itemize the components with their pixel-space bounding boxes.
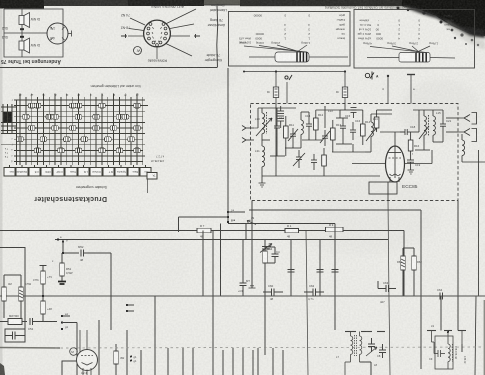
- wire: [324, 106, 326, 128]
- valve V2 bottom: [77, 330, 98, 375]
- node g2: [61, 328, 63, 330]
- trimmer arrow through L30: [256, 118, 272, 136]
- wire: vertical x320: [319, 240, 321, 297]
- wire: vertical x404: [403, 231, 405, 297]
- resistor R57 horizontal: [0, 319, 27, 325]
- wire: vertical x233: [232, 348, 234, 375]
- wire: vertical x307: [306, 231, 308, 375]
- wire: vertical x220: [220, 224, 222, 297]
- node: [57, 238, 59, 240]
- wire: cathode drop: [387, 182, 389, 201]
- circled W mark: [134, 47, 142, 55]
- leader line to left: [128, 35, 144, 37]
- leader line upper left: [130, 18, 145, 25]
- node: [130, 356, 132, 358]
- pin circles: [147, 23, 168, 47]
- capacitor C23: [311, 154, 317, 170]
- wire: vertical x253: [252, 350, 254, 375]
- resistor R17: [322, 148, 327, 176]
- wire: R61 R62 tops: [403, 247, 414, 249]
- capacitor C53 plate: [40, 266, 47, 272]
- capacitor C58: [332, 270, 339, 273]
- panel border horizontal: [0, 67, 217, 69]
- meter mark A ohm right: [365, 73, 369, 77]
- wire: heater feed b: [407, 75, 415, 104]
- wire: inside bottom bus: [262, 175, 380, 177]
- capacitor C64: [440, 293, 443, 300]
- capacitor C45: [240, 240, 247, 297]
- wire: vertical x258: [257, 348, 259, 375]
- tube socket top view: [144, 20, 171, 47]
- wire: vertical x252 from box: [251, 201, 253, 288]
- node g1: [61, 321, 63, 323]
- pin 2: [62, 27, 65, 30]
- grid resistor R13: [331, 120, 336, 150]
- wire: bus inside box: [276, 108, 278, 120]
- capacitor C71: [379, 344, 386, 358]
- pin 4: [51, 38, 54, 41]
- capacitor C15: [340, 118, 346, 136]
- wire: vertical x458: [457, 201, 459, 331]
- wire: bus y210 under box: [249, 209, 421, 211]
- contact block black: [3, 112, 13, 123]
- wire: vertical x141: [140, 350, 142, 375]
- resistor R53: [41, 271, 46, 301]
- left area: resistor R51: [58, 242, 79, 285]
- capacitor C13: [306, 118, 312, 132]
- wire: heater feed a: [387, 75, 389, 104]
- left sub grid: [1, 100, 17, 165]
- resistor R56: [19, 275, 24, 318]
- panel border vertical: [216, 6, 219, 68]
- antenna input arrows: [242, 126, 254, 143]
- capacitor C90: [20, 28, 24, 30]
- switch box with capacitor: [5, 329, 25, 342]
- resistor R61: [401, 248, 406, 296]
- trimmer C22: [293, 150, 305, 168]
- node g2: [227, 221, 229, 223]
- leader lines from bands to headers: [297, 45, 307, 52]
- output arrows outside: [458, 115, 470, 122]
- capacitor C21: [440, 117, 446, 134]
- node: [126, 310, 128, 312]
- colour code panel 1: [229, 12, 351, 67]
- ground in box: [259, 183, 266, 187]
- wire: vertical x335: [334, 224, 336, 331]
- scan edge right sliver: [484, 300, 485, 375]
- node a1: [61, 315, 63, 317]
- coil stack L16: [351, 108, 357, 119]
- resistor leads: [367, 57, 399, 59]
- small cap tap near bus: [260, 244, 272, 253]
- resistor R55: [2, 275, 7, 318]
- resistor R14: [361, 116, 366, 145]
- pin 3: [68, 33, 72, 35]
- wire: vertical x388 cathode: [388, 201, 390, 375]
- node: [126, 304, 128, 306]
- valve grid coil L12: [301, 112, 303, 146]
- wire: vertical x77: [76, 323, 78, 375]
- wire: left pair tops: [4, 274, 21, 276]
- IF transformer L15: [424, 110, 435, 142]
- capacitor C11: [274, 120, 280, 134]
- trimmer C17: [366, 127, 377, 141]
- IF coil stack L13: [278, 106, 285, 128]
- leader lines: [416, 46, 430, 53]
- capacitor C91: [20, 36, 24, 38]
- scan artifact: top black bar: [0, 0, 485, 6]
- wire: corner at 62: [62, 361, 78, 375]
- capacitor C70: [368, 338, 375, 352]
- wire: vertical x155: [154, 296, 156, 375]
- wire: bus y224: [228, 223, 335, 225]
- wire: stub g to left drop: [179, 216, 229, 218]
- loudspeaker LS1: [19, 13, 30, 28]
- branch R44 C44: [263, 240, 279, 356]
- meter mark A ohm left: [285, 76, 288, 79]
- capacitor C52: [81, 250, 111, 257]
- wire: right edge drop: [478, 150, 480, 296]
- coil L30: [262, 108, 267, 140]
- resistor R42 on bus: [285, 228, 299, 232]
- resistor R58: [114, 344, 119, 375]
- loudspeaker LS2: [19, 38, 30, 53]
- resistor R54: [41, 301, 46, 322]
- wire to page edge: [462, 161, 485, 163]
- terminal bracket 2: [472, 129, 477, 142]
- wire: vertical x283: [282, 350, 284, 375]
- wire: anode side: [405, 163, 433, 165]
- capacitor C57: [317, 270, 324, 273]
- wire: center horizontal to connector: [4, 32, 47, 34]
- resistor R62: [412, 248, 417, 296]
- wire stub j: [228, 211, 245, 213]
- wire: bus y231: [0, 230, 404, 232]
- wire: bus y239.5: [55, 239, 388, 241]
- wire: anode top: [394, 132, 396, 146]
- resistor R15: [374, 110, 379, 132]
- leader line to bottom label: [156, 47, 158, 59]
- output transformer Tr1: [345, 332, 385, 375]
- terminal bracket 1: [472, 113, 477, 125]
- colour code panel 2: [354, 10, 475, 69]
- coil L31: [262, 140, 265, 176]
- wire: vertical x99: [98, 320, 100, 375]
- wire: vertical x421: [420, 210, 422, 369]
- ground symbol right: [194, 34, 200, 38]
- resistor drawing R: [275, 52, 309, 62]
- resistor R11: [284, 116, 289, 148]
- wire: vertical x213: [212, 231, 214, 375]
- resistor drawing R: [399, 53, 430, 63]
- capacitor C55: [30, 318, 57, 325]
- oscillator coil L14: [371, 114, 373, 147]
- trimmer C20: [419, 126, 429, 139]
- resistor R12: [314, 110, 319, 140]
- leader line to right ground: [170, 35, 190, 37]
- wire: vertical x179: [178, 217, 180, 232]
- wire: heater bus: [244, 71, 345, 73]
- wire: main line y296: [0, 295, 485, 297]
- ground at 252: [249, 286, 256, 288]
- wire: vertical x183: [182, 348, 184, 375]
- node: [447, 331, 449, 333]
- IF can outline bottom right: [427, 331, 466, 370]
- pin 5: [62, 38, 65, 41]
- wire: vertical x127: [126, 330, 128, 375]
- resistor leads: [249, 56, 275, 58]
- wire: output to dipole: [446, 117, 458, 119]
- wire: vertical x273: [272, 348, 274, 375]
- leader line to lower right label: [166, 44, 192, 57]
- tuning cap C12 (trimmer): [288, 128, 298, 142]
- trimmer arrow: [366, 347, 377, 356]
- wire: inner vertical: [21, 9, 23, 57]
- resistor R16: [408, 132, 413, 158]
- leader line to upper right label: [167, 9, 197, 24]
- connector socket X1: [47, 23, 68, 44]
- wire: vertical x111: [110, 253, 112, 330]
- wire: into grid: [352, 163, 386, 165]
- scan fold dotted line: [0, 347, 60, 350]
- wire: left corner bus: [0, 248, 25, 331]
- node: [130, 360, 132, 362]
- node: [62, 240, 64, 242]
- node j: [227, 211, 229, 213]
- wire: mid connections: [339, 110, 341, 118]
- wire: x462 drop: [461, 344, 463, 352]
- resistor R41 on bus: [197, 228, 211, 233]
- choke Dr2: [342, 70, 347, 103]
- wire: [62, 322, 77, 324]
- pushbutton switch matrix S1: [1, 94, 157, 180]
- wire: vertical feed from panel border: [227, 68, 229, 222]
- wire: vertical x223: [222, 350, 224, 375]
- wire: stub below TA box: [147, 179, 149, 194]
- wire: vertical x441: [440, 296, 442, 331]
- wire: transformer bottom: [360, 361, 372, 363]
- leader line left mid: [129, 29, 144, 31]
- choke Dr1: [273, 70, 278, 103]
- resistor R43 on bus: [326, 227, 344, 231]
- scan edge left: [0, 0, 3, 375]
- coil L1 outside: [462, 134, 465, 162]
- circled M mark: [70, 348, 78, 356]
- wire: vertical x291: [290, 240, 292, 297]
- wire: vertical x246 short: [245, 224, 247, 240]
- wire: vertical x243b: [242, 348, 244, 375]
- valve base shield: [369, 182, 397, 194]
- FM tuner unit shield box (dashed): [251, 104, 459, 201]
- ground near C19: [408, 170, 415, 174]
- wire: vertical x168: [167, 348, 169, 375]
- pin 1: [51, 27, 54, 30]
- capacitor C63: [378, 281, 396, 292]
- capacitor C19: [407, 158, 414, 166]
- wire: input node: [258, 107, 296, 109]
- valve ECC85 V1: [386, 146, 405, 182]
- trimmer C14: [320, 130, 330, 146]
- capacitor C56: [288, 270, 295, 273]
- capacitor C18: [400, 129, 413, 135]
- pin number marks: [152, 27, 162, 42]
- node g: [227, 216, 229, 218]
- ground symbol left: [121, 34, 127, 38]
- capacitor C62: [304, 289, 324, 296]
- capacitor C16: [350, 122, 356, 140]
- arrow tap on bus: [247, 220, 256, 224]
- capacitor C60: [263, 289, 283, 296]
- leader line to right label: [170, 24, 194, 29]
- wire: tuner output: [413, 131, 419, 133]
- wire from mark to box: [286, 82, 288, 104]
- scan artifact: top-right corner blob: [402, 0, 485, 36]
- wire: vertical x193: [192, 348, 194, 375]
- scan artifact bottom-left corner: [0, 363, 5, 375]
- wire: vertical x203: [202, 231, 204, 297]
- wire: speaker panel outline: [4, 9, 63, 57]
